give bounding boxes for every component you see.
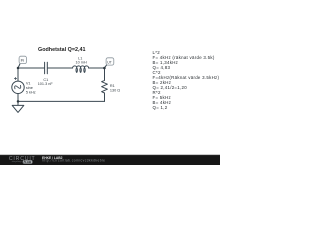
junction node at UT/R1 (103, 67, 106, 70)
watermark bar (0, 155, 220, 165)
svg-text:10 mH: 10 mH (76, 60, 87, 64)
svg-text:130 Ω: 130 Ω (110, 89, 120, 93)
svg-text:Q= 1,2: Q= 1,2 (153, 105, 168, 110)
flag pin IN (18, 64, 20, 68)
svg-text:5 kHz: 5 kHz (26, 90, 36, 94)
watermark logo LAB badge (23, 160, 33, 163)
svg-text:UT: UT (107, 60, 112, 64)
watermark logo squiggle (12, 161, 22, 162)
V1 sine glyph (14, 83, 22, 90)
svg-text:LAB: LAB (25, 160, 31, 164)
capacitor C1 plates (45, 62, 48, 73)
svg-text:http://circuitlab.com/cvc3kkdk: http://circuitlab.com/cvc3kkdkeble (42, 158, 105, 162)
junction node at ground rail (17, 100, 20, 103)
junction node at IN (17, 67, 20, 70)
ground symbol (12, 105, 24, 112)
flag box UT (106, 58, 114, 65)
svg-text:Godhetstal Q=2,41: Godhetstal Q=2,41 (38, 47, 85, 53)
resistor R1 zigzag (102, 80, 108, 94)
wire R1 top (104, 68, 106, 80)
flag pin UT (104, 65, 106, 68)
wire top rail mid: C1 to L1 (48, 67, 73, 69)
wire R1 bottom (104, 94, 106, 101)
notes text block right (153, 50, 220, 110)
svg-text:R1: R1 (110, 84, 115, 88)
voltage source V1 circle (12, 81, 24, 93)
svg-text:sine: sine (26, 86, 33, 90)
svg-text:V1: V1 (26, 81, 31, 85)
wire top rail right: L1 to node UT (89, 67, 105, 69)
svg-text:IN: IN (21, 59, 25, 63)
wire top rail left: IN node to C1 (18, 67, 44, 69)
inductor L1 coil (73, 66, 89, 73)
wire left vertical: IN node down to V1 (17, 68, 19, 81)
wire V1 bottom to ground (17, 93, 19, 105)
svg-text:101.3 nF: 101.3 nF (38, 82, 54, 86)
wire bottom rail (18, 100, 105, 102)
V1 plus sign (14, 77, 16, 79)
flag box IN (19, 56, 26, 63)
